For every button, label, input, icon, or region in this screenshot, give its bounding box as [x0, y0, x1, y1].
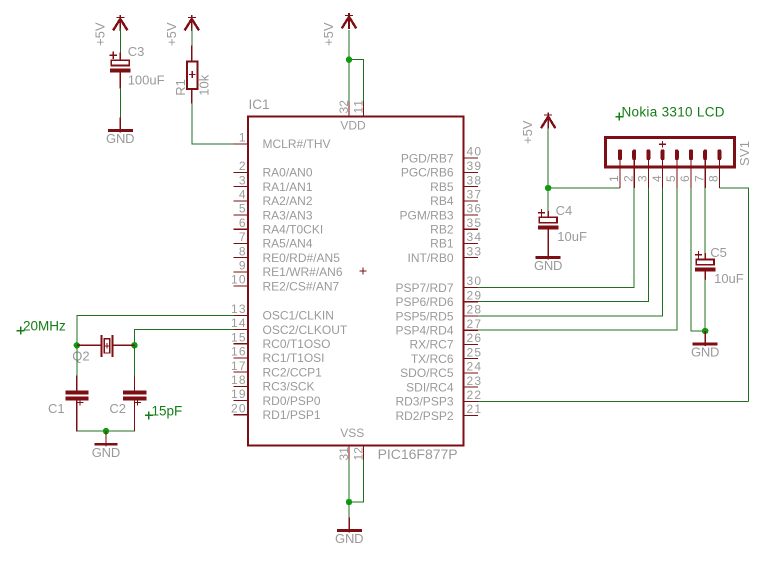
- label Nokia 3310 LCD: [615, 105, 724, 121]
- pin 7 (RA5/AN4) left: [234, 230, 313, 251]
- svg-text:MCLR#/THV: MCLR#/THV: [263, 137, 331, 151]
- resistor R1: [187, 46, 197, 104]
- junction OSC1/crystal: [74, 342, 80, 348]
- pin 30 (PSP7/RD7) right: [395, 274, 481, 295]
- connector pin 3: [636, 149, 651, 188]
- pin 28 (PSP5/RD5) right: [395, 303, 481, 324]
- svg-text:20: 20: [231, 401, 246, 415]
- SV1 origin cross: [659, 141, 666, 148]
- svg-text:36: 36: [467, 202, 482, 216]
- svg-text:16: 16: [231, 345, 246, 359]
- svg-text:RD2/PSP2: RD2/PSP2: [395, 409, 453, 423]
- svg-text:+5V: +5V: [520, 120, 535, 144]
- supply +5V (R1 branch): [164, 15, 199, 46]
- svg-text:GND: GND: [106, 131, 135, 146]
- svg-text:8: 8: [239, 244, 246, 258]
- wire +5V to VDD junction: [348, 30, 350, 60]
- wire pin 12 to junction: [349, 460, 364, 502]
- svg-text:+5V: +5V: [321, 22, 336, 46]
- supply +5V (VDD rail): [321, 13, 356, 46]
- pin 21 (RD2/PSP2) right: [395, 402, 481, 423]
- wire +5V to junction: [547, 129, 549, 188]
- pin 27 (PSP4/RD4) right: [395, 317, 481, 338]
- svg-text:10uF: 10uF: [714, 271, 744, 286]
- pin 20 (RD1/PSP1) left: [231, 401, 321, 422]
- pin 38 (RB5) right: [430, 173, 481, 194]
- svg-text:SDI/RC4: SDI/RC4: [406, 380, 454, 394]
- pin 8 (RE0/RD#/AN5) left: [234, 244, 341, 265]
- svg-text:8: 8: [707, 175, 721, 182]
- svg-text:OSC2/CLKOUT: OSC2/CLKOUT: [263, 323, 348, 337]
- svg-text:20MHz: 20MHz: [23, 319, 66, 334]
- svg-text:RE0/RD#/AN5: RE0/RD#/AN5: [263, 251, 341, 265]
- svg-text:PGM/RB3: PGM/RB3: [399, 208, 453, 222]
- connector pin 2: [621, 149, 636, 188]
- svg-text:RD3/PSP3: RD3/PSP3: [395, 395, 453, 409]
- svg-text:38: 38: [467, 173, 482, 187]
- svg-text:C1: C1: [48, 401, 65, 416]
- pin 2 (RA0/AN0) left: [234, 159, 313, 180]
- pin 34 (RB1) right: [430, 230, 481, 251]
- crystal Q2: [77, 335, 135, 357]
- svg-text:RD1/PSP1: RD1/PSP1: [263, 408, 321, 422]
- pin 12 (VSS): [352, 445, 366, 461]
- svg-text:6: 6: [678, 175, 692, 182]
- wire RD3/PSP3 net: [478, 400, 749, 402]
- svg-text:RX/RC7: RX/RC7: [409, 338, 453, 352]
- pin 22 (RD3/PSP3) right: [395, 388, 481, 409]
- svg-text:33: 33: [467, 244, 482, 258]
- svg-text:Nokia 3310 LCD: Nokia 3310 LCD: [622, 105, 725, 120]
- svg-text:C2: C2: [109, 401, 126, 416]
- svg-text:13: 13: [231, 302, 246, 316]
- pin 15 (RC0/T1OSO) left: [231, 330, 331, 351]
- connector pin 6: [678, 149, 693, 188]
- svg-text:18: 18: [231, 373, 246, 387]
- svg-text:RA2/AN2: RA2/AN2: [263, 194, 313, 208]
- wire PSP6/RD6 to LCD pin 3: [478, 188, 648, 302]
- svg-text:C4: C4: [556, 203, 573, 218]
- wire PSP4/RD4 to LCD pin 5: [478, 188, 677, 330]
- junction OSC2/crystal: [131, 342, 137, 348]
- svg-text:37: 37: [467, 188, 482, 202]
- connector pin 8: [707, 149, 722, 188]
- svg-text:RE1/WR#/AN6: RE1/WR#/AN6: [263, 265, 343, 279]
- svg-text:29: 29: [467, 288, 482, 302]
- wire +5V to C3: [119, 28, 121, 53]
- svg-text:RA3/AN3: RA3/AN3: [263, 208, 313, 222]
- connector SV1 outline: [606, 138, 735, 168]
- svg-text:RB2: RB2: [430, 223, 454, 237]
- svg-text:100uF: 100uF: [128, 72, 165, 87]
- svg-text:C3: C3: [128, 44, 145, 59]
- svg-text:Q2: Q2: [72, 348, 89, 363]
- svg-text:25: 25: [467, 345, 482, 359]
- svg-text:RC2/CCP1: RC2/CCP1: [263, 365, 323, 379]
- svg-text:7: 7: [239, 230, 246, 244]
- svg-text:RD0/PSP0: RD0/PSP0: [263, 394, 321, 408]
- supply +5V (LCD branch): [520, 113, 555, 144]
- svg-text:RC0/T1OSO: RC0/T1OSO: [263, 337, 331, 351]
- svg-text:32: 32: [337, 100, 351, 114]
- wire PSP5/RD5 to LCD pin 4: [478, 188, 663, 316]
- svg-text:22: 22: [467, 388, 482, 402]
- junction C1/C2 ground: [103, 428, 109, 434]
- svg-text:17: 17: [231, 359, 246, 373]
- capacitor C2: [123, 375, 146, 431]
- svg-text:PSP4/RD4: PSP4/RD4: [395, 324, 453, 338]
- svg-text:INT/RB0: INT/RB0: [407, 251, 453, 265]
- svg-text:4: 4: [650, 175, 664, 182]
- capacitor C4: [538, 209, 559, 245]
- svg-text:GND: GND: [335, 531, 364, 546]
- pin 11 (VDD): [352, 100, 366, 118]
- connector pin 7: [692, 149, 707, 188]
- svg-text:RA1/AN1: RA1/AN1: [263, 180, 313, 194]
- wire crystal right to C2: [134, 345, 136, 376]
- svg-text:11: 11: [352, 100, 366, 114]
- wire +5V to R1: [191, 28, 193, 46]
- pin 23 (SDI/RC4) right: [406, 374, 481, 395]
- svg-text:SV1: SV1: [737, 141, 752, 166]
- svg-text:3: 3: [239, 173, 246, 187]
- junction VSS: [346, 499, 352, 505]
- svg-text:TX/RC6: TX/RC6: [411, 352, 454, 366]
- svg-text:30: 30: [467, 274, 482, 288]
- pin 29 (PSP6/RD6) right: [395, 288, 481, 309]
- pin 17 (RC2/CCP1) left: [231, 359, 322, 380]
- svg-text:19: 19: [231, 387, 246, 401]
- capacitor C3: [110, 52, 131, 89]
- wire junction to C4: [547, 188, 549, 212]
- wire crystal left to C1: [76, 345, 78, 376]
- svg-text:GND: GND: [92, 445, 121, 460]
- pin 19 (RD0/PSP0) left: [231, 387, 321, 408]
- svg-text:6: 6: [239, 216, 246, 230]
- wire LCD pin 6 to ground junction: [691, 188, 705, 331]
- svg-text:PSP6/RD6: PSP6/RD6: [395, 295, 453, 309]
- junction +5V/C4: [545, 185, 551, 191]
- svg-text:3: 3: [636, 175, 650, 182]
- svg-text:+5V: +5V: [92, 22, 107, 46]
- svg-text:PGD/RB7: PGD/RB7: [401, 151, 454, 165]
- svg-text:27: 27: [467, 317, 482, 331]
- svg-text:RE2/CS#/AN7: RE2/CS#/AN7: [263, 279, 340, 293]
- svg-text:26: 26: [467, 331, 482, 345]
- capacitor C5: [695, 251, 716, 280]
- svg-text:2: 2: [239, 159, 246, 173]
- pin 6 (RA4/T0CKI) left: [234, 216, 324, 237]
- svg-text:VSS: VSS: [340, 426, 364, 440]
- pin 35 (RB2) right: [430, 216, 481, 237]
- svg-text:RA5/AN4: RA5/AN4: [263, 237, 313, 251]
- ground (C1/C2): [92, 431, 121, 460]
- wire junction to pin 32: [348, 60, 350, 102]
- ground (VSS): [335, 518, 364, 547]
- svg-text:1: 1: [607, 175, 621, 182]
- pin 10 (RE2/CS#/AN7) left: [231, 273, 340, 294]
- svg-text:IC1: IC1: [249, 97, 270, 112]
- svg-text:24: 24: [467, 360, 482, 374]
- svg-text:RB4: RB4: [430, 194, 454, 208]
- capacitor C1: [65, 375, 88, 431]
- pin 39 (PGC/RB6) right: [401, 159, 482, 180]
- svg-text:10k: 10k: [197, 74, 212, 95]
- pin 36 (PGM/RB3) right: [399, 202, 481, 223]
- pin 14 (OSC2/CLKOUT) left: [231, 316, 348, 337]
- connector pin 4: [650, 149, 665, 188]
- ground (C5): [691, 331, 720, 360]
- wire OSC1 net: [77, 315, 234, 345]
- svg-text:14: 14: [231, 316, 246, 330]
- svg-text:SDO/RC5: SDO/RC5: [400, 366, 454, 380]
- svg-text:5: 5: [239, 202, 246, 216]
- pin 37 (RB4) right: [430, 188, 481, 209]
- svg-text:9: 9: [239, 259, 246, 273]
- ground (C4): [534, 245, 563, 274]
- svg-text:RA4/T0CKI: RA4/T0CKI: [263, 223, 324, 237]
- wire junction to ground: [348, 502, 350, 518]
- svg-text:PSP5/RD5: PSP5/RD5: [395, 309, 453, 323]
- wire C3 to GND: [119, 88, 121, 118]
- IC1 origin cross: [360, 268, 367, 275]
- svg-text:23: 23: [467, 374, 482, 388]
- pin 18 (RC3/SCK) left: [231, 373, 315, 394]
- connector pin 1: [607, 149, 622, 188]
- wire R1 to pin 1: [192, 103, 234, 144]
- wire junction to pin 11: [349, 60, 364, 102]
- pin 25 (TX/RC6) right: [411, 345, 482, 366]
- ground (C3): [106, 118, 135, 147]
- supply +5V (C3 branch): [92, 15, 127, 46]
- svg-text:15pF: 15pF: [152, 404, 183, 419]
- wire C2 to ground junction: [106, 430, 135, 432]
- connector pin 5: [664, 149, 679, 188]
- pin 3 (RA1/AN1) left: [234, 173, 313, 194]
- pin 13 (OSC1/CLKIN) left: [231, 302, 334, 323]
- svg-text:15: 15: [231, 330, 246, 344]
- pin 1 (MCLR#/THV) left: [234, 131, 331, 152]
- wire LCD pin 8 to RD3/PSP3: [719, 188, 748, 401]
- svg-text:2: 2: [621, 175, 635, 182]
- wire junction to LCD pin 1: [548, 187, 620, 189]
- svg-text:4: 4: [239, 188, 246, 202]
- junction C5/pin6 ground: [702, 328, 708, 334]
- pin 33 (INT/RB0) right: [407, 244, 481, 265]
- svg-text:7: 7: [692, 175, 706, 182]
- svg-text:RC1/T1OSI: RC1/T1OSI: [263, 351, 325, 365]
- svg-text:21: 21: [467, 402, 482, 416]
- pin 40 (PGD/RB7) right: [401, 145, 482, 166]
- svg-text:12: 12: [352, 447, 366, 461]
- label 15pF: [145, 404, 182, 420]
- pin 32 (VDD): [337, 100, 351, 118]
- svg-text:GND: GND: [691, 345, 720, 360]
- svg-text:10uF: 10uF: [557, 229, 587, 244]
- pin 5 (RA3/AN3) left: [234, 202, 313, 223]
- svg-text:RB5: RB5: [430, 180, 454, 194]
- svg-text:PIC16F877P: PIC16F877P: [378, 446, 458, 462]
- svg-text:RC3/SCK: RC3/SCK: [263, 380, 315, 394]
- svg-text:GND: GND: [534, 258, 563, 273]
- svg-text:PSP7/RD7: PSP7/RD7: [395, 281, 453, 295]
- pin 31 (VSS): [337, 445, 351, 461]
- op: IC1 outline: [248, 117, 464, 446]
- svg-text:39: 39: [467, 159, 482, 173]
- label 20MHz: [17, 319, 66, 335]
- pin 24 (SDO/RC5) right: [400, 360, 481, 381]
- svg-text:40: 40: [467, 145, 482, 159]
- pin 16 (RC1/T1OSI) left: [231, 345, 325, 366]
- wire LCD pin 7 to C5: [704, 188, 706, 254]
- svg-text:OSC1/CLKIN: OSC1/CLKIN: [263, 309, 334, 323]
- pin 26 (RX/RC7) right: [409, 331, 481, 352]
- svg-text:+5V: +5V: [164, 22, 179, 46]
- pin 9 (RE1/WR#/AN6) left: [234, 259, 343, 280]
- svg-text:PGC/RB6: PGC/RB6: [401, 166, 454, 180]
- svg-text:C5: C5: [710, 245, 727, 260]
- svg-text:10: 10: [231, 273, 246, 287]
- svg-text:35: 35: [467, 216, 482, 230]
- svg-text:1: 1: [239, 131, 246, 145]
- svg-text:31: 31: [337, 447, 351, 461]
- wire OSC2 net: [135, 330, 235, 346]
- wire PSP7/RD7 to LCD pin 2: [478, 188, 634, 288]
- svg-text:5: 5: [664, 175, 678, 182]
- wire pin 31 to junction: [348, 460, 350, 502]
- svg-text:34: 34: [467, 230, 482, 244]
- wire C1 to ground junction: [77, 430, 106, 432]
- svg-text:28: 28: [467, 303, 482, 317]
- svg-text:RA0/AN0: RA0/AN0: [263, 166, 313, 180]
- wire C5 to ground junction: [704, 279, 706, 331]
- junction VDD: [346, 57, 352, 63]
- svg-text:VDD: VDD: [340, 119, 366, 133]
- svg-text:R1: R1: [173, 79, 188, 96]
- svg-text:RB1: RB1: [430, 237, 454, 251]
- pin 4 (RA2/AN2) left: [234, 188, 313, 209]
